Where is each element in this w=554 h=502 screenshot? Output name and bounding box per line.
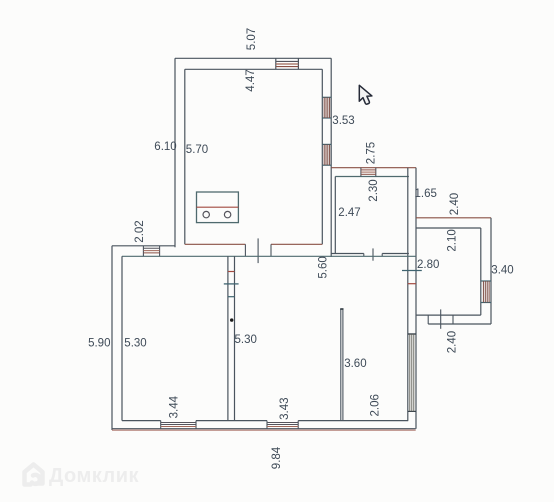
wall: kitchen left outer xyxy=(174,58,176,247)
wall: room2 bottom xyxy=(331,253,409,255)
stove symbol xyxy=(197,192,239,223)
window bottom-left (3.44) xyxy=(161,421,196,429)
wall: kitchen bottom inner (brown) xyxy=(185,243,322,245)
wall: right room right outer xyxy=(490,218,492,324)
svg-text:5.07: 5.07 xyxy=(246,28,258,50)
svg-text:3.53: 3.53 xyxy=(332,115,354,127)
window kitchen right lower xyxy=(322,144,331,165)
door partition: red jamb xyxy=(228,271,235,273)
svg-text:2.10: 2.10 xyxy=(447,229,459,251)
wall: right room bottom outer xyxy=(428,323,491,325)
svg-text:2.75: 2.75 xyxy=(366,142,378,164)
svg-text:2.06: 2.06 xyxy=(369,394,381,416)
wall: room2 top outer (brown) xyxy=(331,167,416,169)
svg-text:2.40: 2.40 xyxy=(449,193,461,215)
wall: long vertical east line xyxy=(415,168,417,429)
svg-text:1.65: 1.65 xyxy=(415,188,437,200)
thin partition 3.60 xyxy=(340,309,343,421)
svg-text:2.30: 2.30 xyxy=(368,179,380,201)
wall: partition between 5.30 rooms west line xyxy=(227,256,229,420)
svg-text:2.80: 2.80 xyxy=(417,259,439,271)
svg-text:3.44: 3.44 xyxy=(169,395,181,418)
svg-text:3.43: 3.43 xyxy=(279,398,291,420)
wall: kitchen left inner xyxy=(184,69,186,244)
window room2 top (2.75) xyxy=(361,168,376,177)
svg-text:9.84: 9.84 xyxy=(271,446,283,469)
window bottom-middle (3.43) xyxy=(267,421,298,429)
window right room (on right wall) xyxy=(481,281,491,303)
svg-text:5.60: 5.60 xyxy=(318,256,330,278)
svg-text:5.90: 5.90 xyxy=(88,337,110,349)
door partition: teal jamb xyxy=(228,296,235,298)
wall: bottom outer xyxy=(112,428,416,430)
wall: plan left outer xyxy=(111,246,113,430)
wall: partition between 5.30 rooms east line xyxy=(234,256,236,420)
wall: right room top outer (brown) xyxy=(416,217,491,219)
mouse cursor xyxy=(359,85,372,104)
svg-text:4.47: 4.47 xyxy=(245,69,257,91)
wall: right room bottom inner xyxy=(416,314,481,316)
svg-text:Домклик: Домклик xyxy=(49,465,139,487)
svg-text:3.40: 3.40 xyxy=(491,264,513,276)
wall: full-width inner top (teal) xyxy=(122,255,416,257)
wall: bottom outer red edge xyxy=(112,429,416,431)
wall: kitchen right outer xyxy=(330,58,332,257)
window 2.02 xyxy=(143,246,159,256)
window kitchen top (5.07 wall) xyxy=(276,58,299,69)
svg-text:5.30: 5.30 xyxy=(124,337,146,349)
door tick 2.80 xyxy=(402,270,422,272)
watermark house logo xyxy=(25,465,43,485)
door right room bottom xyxy=(428,309,453,328)
wall: room2 left inner xyxy=(334,177,336,254)
door room2 bottom xyxy=(364,248,382,260)
svg-text:2.40: 2.40 xyxy=(447,331,459,353)
door kitchen bottom (jambs and leaf tick) xyxy=(245,238,271,263)
svg-text:3.60: 3.60 xyxy=(344,358,366,370)
wall: right room top inner xyxy=(416,227,481,229)
window kitchen right upper (3.53) xyxy=(322,97,331,118)
wall: right room right inner xyxy=(480,228,482,315)
wall: bottom inner xyxy=(122,420,408,422)
window 3.42 (right wall of bottom block) xyxy=(408,334,416,411)
wall: room2 top inner xyxy=(335,176,409,178)
svg-text:5.70: 5.70 xyxy=(186,144,208,156)
door jamb red segment xyxy=(408,283,416,285)
svg-text:5.30: 5.30 xyxy=(235,334,257,346)
wall: kitchen top outer xyxy=(175,57,331,59)
wall: bottom-left room top outer xyxy=(112,245,175,247)
door partition: tick xyxy=(224,283,239,285)
svg-text:2.47: 2.47 xyxy=(338,207,360,219)
wall: long vertical west line xyxy=(407,168,409,421)
black dot on partition xyxy=(230,318,233,321)
svg-text:6.10: 6.10 xyxy=(154,141,176,153)
wall: kitchen right inner xyxy=(321,69,323,244)
svg-text:2.02: 2.02 xyxy=(134,220,146,242)
wall: bottom-left room left inner xyxy=(121,256,123,420)
wall: kitchen top inner xyxy=(185,68,322,70)
